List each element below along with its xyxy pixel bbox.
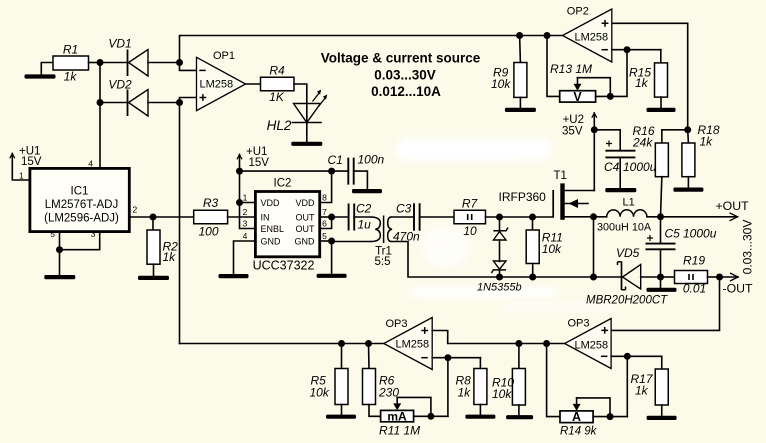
pin number 2 (IC1) — [133, 205, 138, 215]
ground (R2) — [138, 264, 169, 280]
ground (IC2 pin 4) — [219, 274, 249, 278]
wire C3 to R7 — [420, 216, 454, 218]
svg-text:UCC37322: UCC37322 — [253, 259, 315, 273]
node +OUT / C5 / R16 — [657, 213, 664, 220]
svg-text:LM2576T-ADJ: LM2576T-ADJ — [45, 199, 119, 211]
svg-text:R13 1M: R13 1M — [550, 62, 592, 76]
op-amp OP2 — [563, 6, 612, 63]
svg-text:+OUT: +OUT — [716, 199, 750, 213]
svg-text:OP3: OP3 — [568, 318, 590, 330]
wire IC2 pin1/pin3 supply — [236, 171, 255, 228]
power symbol +U1 (IC2) — [237, 146, 269, 171]
svg-text:R1: R1 — [63, 43, 78, 57]
svg-text:-OUT: -OUT — [723, 282, 754, 296]
svg-text:VDD: VDD — [295, 198, 315, 208]
wire IC1 pin 2 to R3 — [129, 216, 193, 218]
pin number 1 (IC1) — [19, 171, 24, 181]
transistor T1 IRFP360 — [499, 170, 595, 220]
svg-text:1u: 1u — [358, 218, 372, 232]
node R18 / OP2 + input — [684, 126, 691, 133]
svg-text:1000u: 1000u — [683, 227, 717, 241]
svg-text:A: A — [572, 410, 581, 424]
wire R1 to node A — [89, 62, 101, 64]
title line 1 — [321, 50, 481, 65]
svg-text:1: 1 — [243, 193, 248, 203]
svg-text:R3: R3 — [203, 196, 219, 210]
svg-text:5: 5 — [50, 229, 55, 239]
svg-text:OP3: OP3 — [386, 318, 408, 330]
node +U1/IC2 rail — [236, 168, 243, 175]
wire R7 to T1 gate (with nodes) — [486, 216, 554, 218]
node OP3b - input — [611, 353, 662, 360]
resistor R1 — [53, 43, 89, 84]
svg-text:2: 2 — [133, 205, 138, 215]
svg-text:R4: R4 — [269, 64, 285, 78]
op-amp OP1 — [197, 50, 246, 111]
wire R16 bottom to +OUT rail — [661, 177, 662, 217]
wire R3 to IC2 pin 2 — [228, 216, 256, 218]
wire R4 to HL2 — [294, 84, 307, 123]
svg-text:C3: C3 — [396, 202, 412, 216]
ground (R10) — [506, 405, 533, 419]
node IC2 pin 5 — [320, 238, 335, 245]
capacitor C5 1000u (electrolytic) — [646, 217, 717, 250]
diode VD5 MBR20H200CT — [586, 246, 668, 307]
svg-text:100n: 100n — [358, 153, 385, 167]
svg-text:mA: mA — [387, 410, 407, 424]
power symbol +U2 35V — [562, 113, 597, 138]
wire R13 left lead — [547, 36, 560, 97]
title line 2 — [374, 68, 436, 83]
capacitor C3 — [393, 202, 420, 244]
svg-text:24k: 24k — [632, 136, 653, 150]
wire switch node down to lower rail — [593, 217, 595, 277]
svg-text:GND: GND — [261, 237, 282, 247]
ground (R17) — [647, 405, 677, 420]
wire OP1 output to R4 — [246, 83, 261, 85]
svg-text:LM258: LM258 — [200, 79, 234, 91]
node A (R1/VD1/IC1 pin4) — [97, 59, 104, 106]
wire node A to IC1 pin 4 — [99, 103, 101, 169]
svg-text:0.03...30V: 0.03...30V — [741, 220, 755, 275]
transformer Tr1 — [371, 216, 393, 269]
svg-text:8: 8 — [322, 193, 327, 203]
svg-text:LM258: LM258 — [396, 339, 430, 351]
svg-text:IN: IN — [261, 213, 270, 223]
svg-text:Voltage & current source: Voltage & current source — [321, 50, 481, 65]
ground (R5) — [326, 405, 356, 419]
svg-text:VD2: VD2 — [108, 78, 132, 92]
svg-text:MBR20H200CT: MBR20H200CT — [586, 295, 668, 307]
svg-text:OP1: OP1 — [213, 50, 235, 62]
node OP3a - input — [432, 354, 480, 361]
svg-text:C5: C5 — [665, 227, 681, 241]
LED HL2 — [267, 90, 328, 134]
svg-text:LM258: LM258 — [575, 32, 609, 44]
label 1N5355b — [477, 282, 522, 294]
wire OP3a + input (jog to shared line) — [432, 331, 564, 344]
resistor R19 0.01 — [675, 254, 708, 296]
ground (C5 / output common) — [647, 277, 677, 292]
ground (R9) — [505, 97, 536, 112]
svg-text:15V: 15V — [249, 157, 270, 169]
node zener bottom on lower rail — [496, 274, 503, 281]
wire top rail (node B up, right to OP2 output) — [180, 36, 563, 63]
IC U1: IC1 LM2576T-ADJ — [30, 168, 129, 231]
potentiometer R11 1M (mA adjust) — [379, 397, 448, 437]
svg-text:1K: 1K — [269, 90, 285, 104]
svg-text:C1: C1 — [328, 153, 343, 167]
pin number 4 (IC1) — [88, 159, 93, 169]
resistor R4 — [261, 64, 295, 105]
svg-text:0.012...10A: 0.012...10A — [371, 84, 441, 99]
title line 3 — [371, 84, 441, 99]
capacitor C2 — [349, 202, 372, 232]
node R11 top — [529, 214, 536, 221]
svg-text:230: 230 — [378, 386, 399, 400]
svg-text:OUT: OUT — [296, 224, 316, 234]
wire C2 to Tr1 primary top — [354, 216, 370, 218]
wire +U1 to IC1 pin 1 — [12, 170, 30, 180]
svg-text:1k: 1k — [635, 76, 649, 90]
svg-text:470n: 470n — [393, 230, 420, 244]
node -OUT — [708, 274, 724, 281]
wire R13 right to OP2 - input — [610, 50, 627, 97]
svg-text:1N5355b: 1N5355b — [477, 282, 522, 294]
resistor R16 24k — [632, 124, 668, 177]
power symbol +U1 (IC1) — [10, 146, 42, 171]
node R13 drop — [544, 32, 551, 39]
capacitor C1 — [328, 153, 385, 185]
wire T1 drain to +U2 node — [593, 130, 595, 191]
wire R6 bottom to pot R11 — [369, 405, 381, 417]
resistor R17 1k — [631, 356, 669, 405]
inductor L1 300uH 10A — [597, 197, 652, 234]
resistor R10 10k — [492, 344, 525, 406]
wire OUT node to C2 — [332, 216, 349, 218]
svg-text:35V: 35V — [562, 126, 583, 138]
-OUT terminal arrow — [720, 273, 754, 296]
IC U2: IC2 UCC37322 — [253, 178, 320, 273]
svg-text:1: 1 — [19, 171, 24, 181]
node R11 bottom on lower rail — [529, 274, 536, 281]
resistor R8 1k — [456, 358, 487, 405]
wire +U2 node to C4 — [594, 130, 620, 151]
svg-text:1k: 1k — [700, 135, 714, 149]
svg-text:7: 7 — [322, 207, 327, 217]
wire pin 5 to Tr1 primary bottom — [332, 241, 371, 243]
wire OP2 + input (vertical from node down / left to OP2) — [612, 23, 688, 130]
node switch-node on lower rail — [590, 274, 597, 281]
svg-text:R14 9k: R14 9k — [560, 426, 598, 438]
ground (R18) — [673, 177, 703, 192]
node B (VD1 / OP1 inverting / top rail) — [176, 59, 197, 70]
wire -OUT node to OP3b + input — [611, 277, 719, 330]
svg-text:2: 2 — [243, 207, 248, 217]
svg-text:10k: 10k — [492, 387, 512, 401]
potentiometer R14 9k (A adjust) — [560, 398, 627, 438]
pin number 3 (IC1) — [91, 229, 96, 239]
wire Tr1 secondary top to C3 — [391, 216, 414, 218]
capacitor C4 1000u (electrolytic) — [604, 141, 657, 175]
potentiometer R13 1M (V adjust) — [550, 62, 614, 104]
node R9 top — [516, 32, 523, 39]
ground (R1 left) — [25, 63, 56, 79]
svg-text:1k: 1k — [64, 70, 78, 84]
wire Tr1 secondary bottom to lower rail — [391, 242, 499, 278]
svg-text:1k: 1k — [163, 250, 177, 264]
svg-text:LM258: LM258 — [575, 340, 609, 352]
svg-text:+U2: +U2 — [563, 114, 584, 126]
resistor R11 10k — [526, 217, 563, 277]
pin numbers IC2 left (1,2,3,4) — [243, 193, 248, 242]
node R14 drop — [543, 340, 550, 347]
diode VD2 — [100, 78, 180, 117]
wire +U1 rail to C1 — [240, 170, 349, 172]
node C5 bottom on lower rail — [657, 249, 664, 280]
wire OP3b - node down to pot R14 — [626, 356, 628, 416]
resistor R18 1k — [682, 123, 720, 177]
node T1 source / switch node — [590, 213, 597, 220]
svg-text:OP2: OP2 — [567, 6, 589, 18]
pin numbers IC2 right (8,7,6,5) — [322, 193, 327, 242]
svg-text:1000u: 1000u — [623, 160, 657, 174]
svg-text:VD1: VD1 — [108, 37, 131, 51]
svg-text:4: 4 — [88, 159, 93, 169]
svg-text:L1: L1 — [623, 197, 635, 209]
label 0.03...30V (rotated) — [741, 220, 755, 275]
svg-text:100: 100 — [198, 225, 218, 239]
wire lower rail (C5 node to R19) — [661, 276, 675, 278]
svg-text:1k: 1k — [635, 384, 649, 398]
ground (C4) — [605, 157, 636, 192]
svg-text:1k: 1k — [458, 386, 472, 400]
resistor R9 10k — [491, 36, 527, 98]
svg-text:IRFP360: IRFP360 — [499, 190, 547, 204]
wire switch node to L1 — [594, 216, 607, 218]
svg-text:IC2: IC2 — [274, 178, 292, 190]
svg-text:5: 5 — [322, 231, 327, 241]
ground (HL2) — [291, 123, 322, 146]
svg-text:6: 6 — [322, 219, 327, 229]
svg-text:10k: 10k — [542, 242, 562, 256]
svg-text:10k: 10k — [491, 77, 511, 91]
node R5 top — [338, 340, 345, 347]
svg-text:10k: 10k — [310, 386, 330, 400]
ground (IC2 pin 5) — [317, 241, 347, 278]
svg-text:3: 3 — [243, 219, 248, 229]
svg-text:4: 4 — [243, 231, 248, 241]
svg-text:VD5: VD5 — [616, 246, 640, 260]
wire IC1 pins 5,3 tie — [56, 232, 100, 254]
svg-text:5:5: 5:5 — [375, 256, 391, 268]
svg-text:10: 10 — [463, 224, 477, 238]
node B2 (VD2 / OP1 non-inverting / feedback) — [176, 98, 197, 107]
ground (R8) — [465, 405, 495, 419]
svg-text:HL2: HL2 — [267, 118, 292, 133]
svg-text:C2: C2 — [356, 202, 372, 216]
resistor R6 230 — [363, 344, 400, 405]
svg-text:R7: R7 — [462, 197, 479, 211]
svg-text:0.03...30V: 0.03...30V — [374, 68, 436, 83]
wire R16 top to OP2 + node — [662, 130, 688, 143]
wire lower rail (zeners to VD5) — [500, 276, 622, 278]
svg-text:V: V — [573, 90, 582, 104]
resistor R2 — [147, 217, 178, 264]
svg-text:GND: GND — [295, 237, 316, 247]
svg-text:3: 3 — [91, 229, 96, 239]
resistor R15 1k — [629, 50, 668, 97]
resistor R7 — [454, 197, 486, 239]
ground (IC1 pins 5,3) — [44, 250, 75, 280]
svg-text:IC1: IC1 — [71, 186, 89, 198]
svg-text:(LM2596-ADJ): (LM2596-ADJ) — [44, 213, 119, 225]
op-amp OP3 (left) — [384, 318, 432, 370]
svg-text:OUT: OUT — [296, 213, 316, 223]
ground (C1) — [352, 171, 382, 193]
wire L1 to +OUT — [647, 216, 728, 218]
node +U2 (drain / C4) — [591, 126, 598, 133]
+OUT terminal arrow — [716, 199, 750, 221]
node R10 top — [515, 340, 522, 347]
svg-text:C4: C4 — [604, 160, 620, 174]
resistor R3 — [194, 196, 228, 239]
wire OP3a - node down to pot — [447, 358, 449, 417]
svg-text:0.01: 0.01 — [683, 282, 706, 296]
svg-text:ENBL: ENBL — [261, 224, 285, 234]
wire feedback vertical (node B2 down to OP3 output line) — [179, 103, 181, 344]
svg-text:15V: 15V — [21, 156, 42, 168]
node R6 top — [365, 340, 372, 347]
resistor R5 10k — [310, 344, 349, 405]
svg-text:R19: R19 — [683, 254, 705, 268]
diode VD1 — [100, 37, 180, 77]
node OP2 - input — [612, 46, 661, 53]
pin number 5 (IC1) — [50, 229, 55, 239]
node R2 top — [150, 214, 157, 221]
wire IC2 pin 4 ground lead — [234, 241, 256, 274]
wire OP3a output line (feedback to left) — [180, 343, 384, 345]
wire R14 left lead — [547, 344, 560, 417]
ground (R15) — [647, 97, 676, 112]
wire IC2 pins 7,6 tie (OUT) — [320, 214, 335, 229]
wire IC2 pin 8 to +U1 rail — [320, 168, 335, 203]
op-amp OP3 (right) — [565, 318, 612, 369]
svg-text:300uH 10A: 300uH 10A — [597, 222, 652, 234]
node zener top — [496, 214, 503, 221]
svg-text:VDD: VDD — [261, 198, 281, 208]
zener diode VD (1N5355b lower) — [491, 240, 506, 277]
svg-text:R11 1M: R11 1M — [379, 424, 420, 438]
zener diode VD (1N5355b upper) — [493, 217, 508, 240]
svg-text:T1: T1 — [554, 170, 567, 182]
